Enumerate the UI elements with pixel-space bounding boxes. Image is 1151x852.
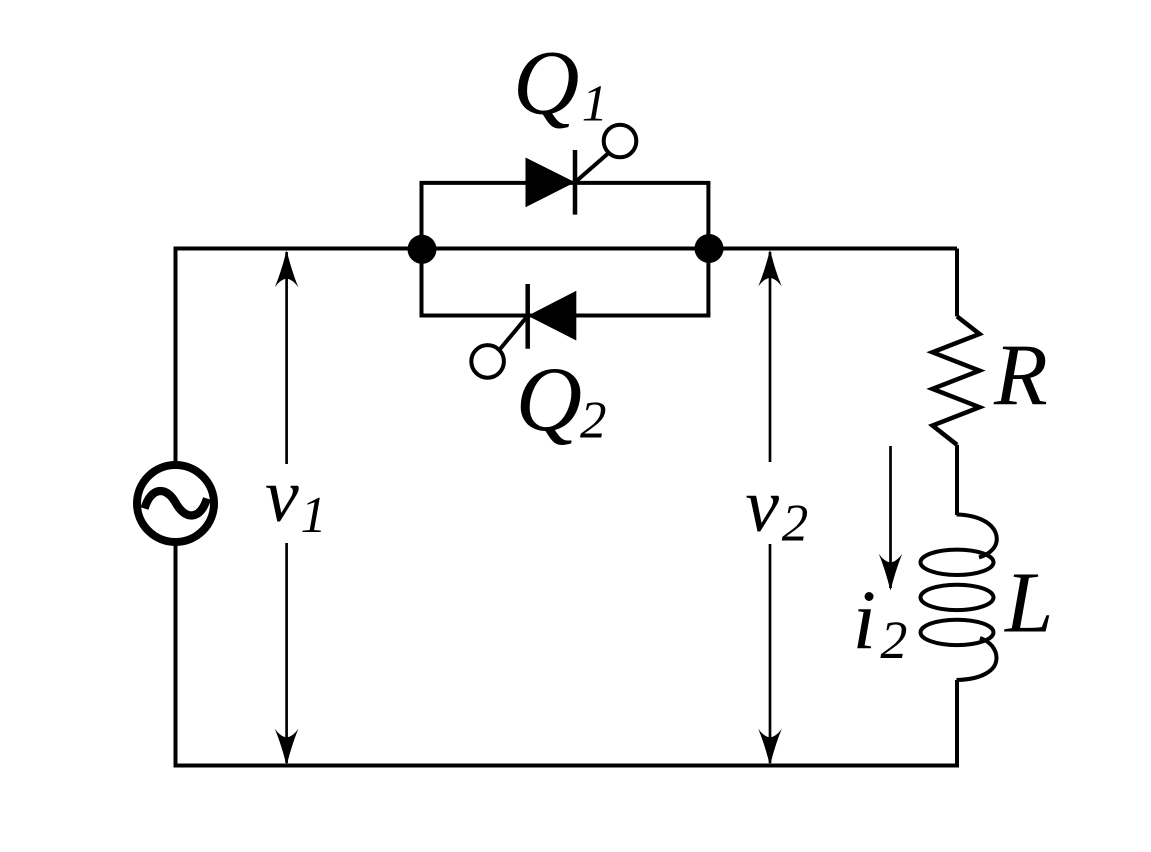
ac voltage source v1 <box>137 465 214 542</box>
svg-text:R: R <box>993 328 1048 425</box>
label Q2 <box>516 348 607 450</box>
wire left vertical upper <box>174 247 178 463</box>
node right junction <box>695 234 724 263</box>
wire branch right vertical <box>706 183 710 316</box>
wire branch bottom horizontal <box>420 314 711 318</box>
wire right vertical lower (inductor to bottom) <box>955 680 959 768</box>
svg-text:1: 1 <box>301 487 327 544</box>
svg-text:1: 1 <box>582 76 608 133</box>
wire right vertical upper (top wire to resistor) <box>955 249 959 317</box>
svg-text:Q: Q <box>516 348 582 450</box>
wire bottom horizontal <box>174 764 960 768</box>
wire left vertical lower <box>174 545 178 768</box>
svg-text:L: L <box>1003 554 1053 651</box>
wire top horizontal <box>176 247 958 251</box>
inductor L <box>921 515 997 681</box>
label v1 <box>265 454 327 544</box>
wire branch top horizontal <box>420 181 711 185</box>
wire branch left vertical <box>420 183 424 316</box>
label i2 <box>853 573 908 670</box>
voltage arrow v2 <box>758 250 782 766</box>
voltage arrow v1 <box>275 251 299 766</box>
label v2 <box>745 464 808 552</box>
current arrow i2 <box>879 446 903 591</box>
node left junction <box>408 235 437 264</box>
wire right vertical middle (resistor to inductor) <box>955 445 959 515</box>
thyristor Q1 <box>526 125 637 215</box>
thyristor Q2 <box>471 284 576 378</box>
svg-text:2: 2 <box>580 392 607 450</box>
resistor R <box>933 316 980 444</box>
svg-text:v: v <box>265 454 299 538</box>
svg-text:v: v <box>745 464 779 548</box>
label Q1 <box>513 31 608 133</box>
svg-text:i: i <box>853 573 877 667</box>
svg-text:2: 2 <box>782 494 809 552</box>
svg-text:2: 2 <box>880 610 907 670</box>
svg-text:Q: Q <box>513 31 579 133</box>
